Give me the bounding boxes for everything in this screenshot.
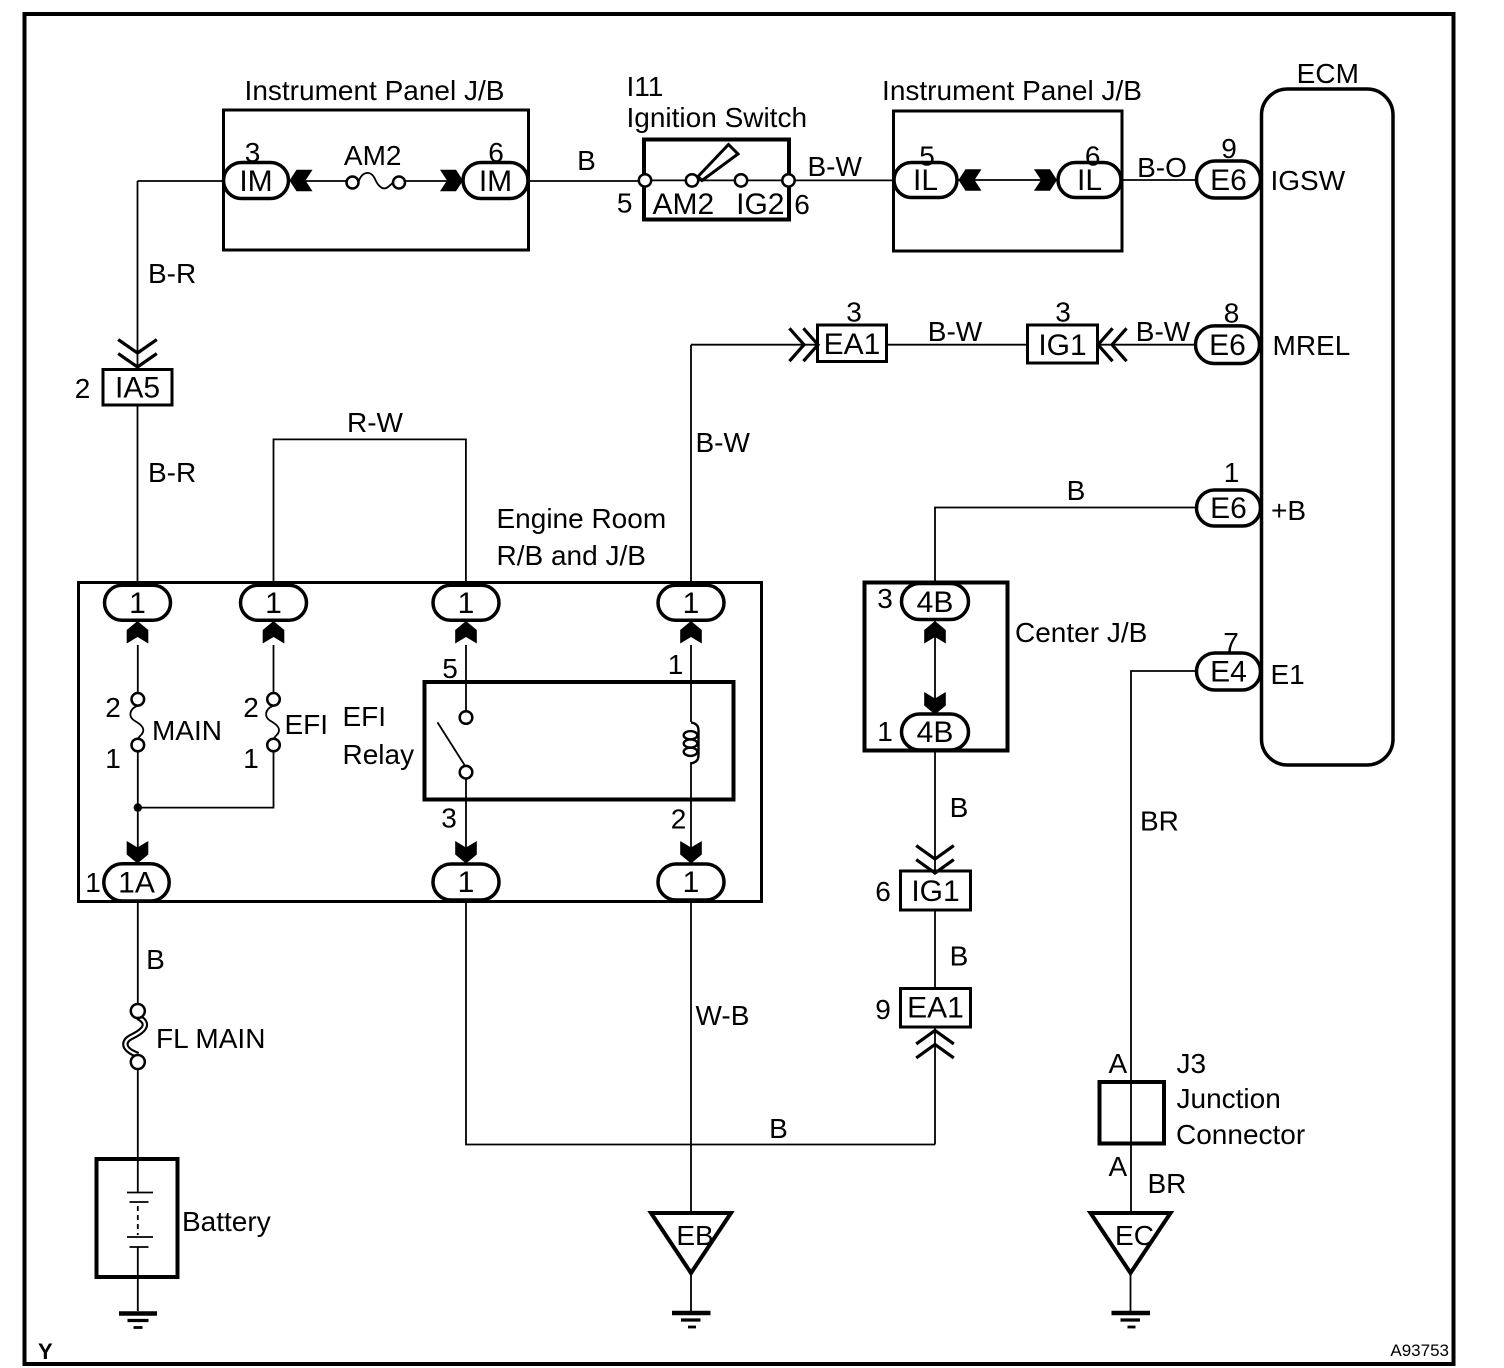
svg-text:Relay: Relay bbox=[343, 739, 415, 770]
svg-text:E6: E6 bbox=[1210, 164, 1247, 197]
svg-text:IG2: IG2 bbox=[736, 188, 784, 221]
svg-text:1: 1 bbox=[458, 587, 475, 620]
svg-text:5: 5 bbox=[617, 188, 633, 219]
svg-text:AM2: AM2 bbox=[344, 140, 402, 171]
svg-text:IL: IL bbox=[913, 164, 938, 197]
svg-text:8: 8 bbox=[1224, 298, 1240, 329]
svg-text:J3: J3 bbox=[1177, 1048, 1207, 1079]
svg-text:2: 2 bbox=[105, 692, 121, 723]
svg-text:IA5: IA5 bbox=[115, 372, 160, 405]
svg-text:1: 1 bbox=[129, 587, 146, 620]
svg-text:9: 9 bbox=[875, 994, 891, 1025]
svg-text:BR: BR bbox=[1148, 1168, 1187, 1199]
svg-text:E6: E6 bbox=[1210, 492, 1247, 525]
svg-text:Connector: Connector bbox=[1176, 1119, 1305, 1150]
svg-text:9: 9 bbox=[1221, 133, 1237, 164]
svg-text:IG1: IG1 bbox=[1038, 329, 1086, 362]
svg-text:Battery: Battery bbox=[182, 1206, 271, 1237]
svg-text:E4: E4 bbox=[1210, 656, 1247, 689]
svg-text:R/B and J/B: R/B and J/B bbox=[497, 540, 646, 571]
svg-text:6: 6 bbox=[794, 189, 810, 220]
svg-text:1A: 1A bbox=[118, 867, 155, 900]
svg-text:6: 6 bbox=[488, 137, 504, 168]
svg-text:IM: IM bbox=[239, 165, 272, 198]
svg-text:I11: I11 bbox=[627, 71, 664, 102]
svg-text:IG1: IG1 bbox=[911, 875, 959, 908]
svg-text:2: 2 bbox=[75, 373, 91, 404]
svg-text:7: 7 bbox=[1223, 627, 1239, 658]
svg-text:A: A bbox=[1108, 1048, 1127, 1079]
svg-text:3: 3 bbox=[1055, 297, 1071, 328]
svg-text:Y: Y bbox=[38, 1339, 53, 1364]
svg-text:1: 1 bbox=[85, 867, 101, 898]
svg-text:B-R: B-R bbox=[148, 258, 196, 289]
svg-text:B-O: B-O bbox=[1137, 152, 1187, 183]
svg-text:E1: E1 bbox=[1271, 659, 1305, 690]
svg-text:B-W: B-W bbox=[928, 316, 983, 347]
svg-text:B-W: B-W bbox=[696, 427, 751, 458]
svg-text:A93753: A93753 bbox=[1390, 1341, 1449, 1360]
svg-text:EA1: EA1 bbox=[824, 328, 881, 361]
svg-text:EB: EB bbox=[676, 1220, 713, 1251]
svg-text:B: B bbox=[769, 1113, 788, 1144]
svg-text:3: 3 bbox=[877, 583, 893, 614]
svg-text:B: B bbox=[950, 941, 969, 972]
svg-text:Junction: Junction bbox=[1177, 1083, 1281, 1114]
svg-text:B-R: B-R bbox=[148, 457, 196, 488]
svg-text:B: B bbox=[146, 944, 165, 975]
svg-text:EC: EC bbox=[1115, 1220, 1154, 1251]
svg-text:A: A bbox=[1108, 1151, 1127, 1182]
svg-text:E6: E6 bbox=[1209, 329, 1246, 362]
svg-text:EFI: EFI bbox=[285, 709, 329, 740]
svg-text:B: B bbox=[577, 145, 596, 176]
svg-text:1: 1 bbox=[877, 716, 893, 747]
svg-text:1: 1 bbox=[683, 866, 700, 899]
svg-text:3: 3 bbox=[245, 137, 261, 168]
svg-text:MREL: MREL bbox=[1273, 330, 1351, 361]
svg-text:B: B bbox=[950, 792, 969, 823]
svg-text:Instrument Panel J/B: Instrument Panel J/B bbox=[882, 75, 1142, 106]
svg-text:Engine Room: Engine Room bbox=[497, 503, 667, 534]
svg-text:Ignition Switch: Ignition Switch bbox=[627, 102, 808, 133]
svg-text:4B: 4B bbox=[917, 716, 954, 749]
svg-text:2: 2 bbox=[671, 804, 687, 835]
svg-text:2: 2 bbox=[243, 692, 259, 723]
svg-text:ECM: ECM bbox=[1297, 58, 1359, 89]
svg-text:5: 5 bbox=[442, 653, 458, 684]
svg-text:IM: IM bbox=[479, 165, 512, 198]
svg-text:MAIN: MAIN bbox=[152, 715, 222, 746]
svg-text:BR: BR bbox=[1140, 806, 1179, 837]
svg-text:3: 3 bbox=[846, 297, 862, 328]
svg-text:W-B: W-B bbox=[696, 1000, 750, 1031]
svg-text:IL: IL bbox=[1077, 164, 1102, 197]
svg-text:4B: 4B bbox=[917, 586, 954, 619]
svg-text:B-W: B-W bbox=[1136, 316, 1191, 347]
svg-text:Instrument Panel J/B: Instrument Panel J/B bbox=[245, 75, 505, 106]
svg-text:1: 1 bbox=[668, 649, 684, 680]
svg-text:1: 1 bbox=[458, 866, 475, 899]
svg-text:+B: +B bbox=[1271, 495, 1306, 526]
svg-text:1: 1 bbox=[243, 743, 259, 774]
svg-text:B-W: B-W bbox=[808, 151, 863, 182]
svg-text:1: 1 bbox=[265, 587, 282, 620]
svg-text:R-W: R-W bbox=[347, 407, 404, 438]
svg-text:EA1: EA1 bbox=[907, 992, 964, 1025]
svg-text:B: B bbox=[1067, 475, 1086, 506]
svg-text:1: 1 bbox=[683, 587, 700, 620]
svg-text:1: 1 bbox=[1224, 457, 1240, 488]
svg-text:Center J/B: Center J/B bbox=[1015, 617, 1147, 648]
svg-text:EFI: EFI bbox=[343, 701, 387, 732]
svg-text:6: 6 bbox=[875, 876, 891, 907]
svg-text:1: 1 bbox=[105, 743, 121, 774]
svg-text:3: 3 bbox=[441, 803, 457, 834]
svg-text:FL MAIN: FL MAIN bbox=[156, 1023, 265, 1054]
svg-text:IGSW: IGSW bbox=[1271, 165, 1346, 196]
svg-text:AM2: AM2 bbox=[652, 188, 714, 221]
